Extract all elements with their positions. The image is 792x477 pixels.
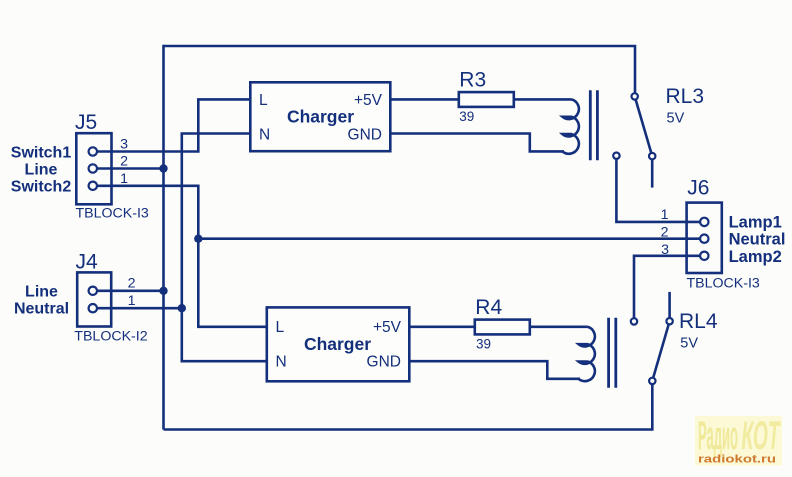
svg-text:L: L (276, 319, 285, 336)
svg-text:J6: J6 (687, 177, 709, 200)
charger U2 body (267, 307, 410, 381)
wire R4 to RL4 coil (530, 325, 588, 328)
svg-text:5V: 5V (680, 336, 698, 352)
wire Line left rail (162, 45, 165, 430)
watermark radiokot logo (695, 414, 782, 466)
svg-text:RL3: RL3 (666, 85, 705, 108)
svg-text:5V: 5V (667, 111, 685, 127)
svg-text:+5V: +5V (373, 319, 402, 336)
svg-text:L: L (259, 92, 268, 109)
resistor R4 (475, 320, 530, 335)
svg-text:Switch2: Switch2 (11, 179, 72, 196)
svg-text:Line: Line (25, 161, 58, 178)
relay RL3 core bar 1 (589, 90, 592, 160)
svg-text:Neutral: Neutral (14, 301, 69, 318)
svg-text:39: 39 (459, 109, 474, 124)
wire Line top rail (164, 46, 636, 93)
relay RL4 pole contact (666, 318, 672, 324)
svg-text:1: 1 (120, 171, 128, 187)
wire Charger1 GND to RL3 coil bottom (390, 134, 564, 152)
svg-text:3: 3 (120, 137, 128, 153)
wire RL4 NO stub (668, 292, 671, 321)
pin J5.1 (89, 182, 97, 190)
wire Line bottom rail (164, 385, 653, 430)
relay RL3 throw contact (649, 153, 655, 159)
pin J4.2 (89, 287, 97, 295)
svg-text:+5V: +5V (354, 92, 383, 109)
svg-text:2: 2 (128, 276, 136, 292)
connector J4 body (77, 272, 111, 326)
junction node to J6 pin2 (194, 235, 202, 243)
wire J5 pin3 to Charger1 L (94, 99, 250, 151)
svg-text:Neutral: Neutral (729, 231, 786, 249)
pin J4.1 (89, 304, 97, 312)
wire R3 to RL3 coil (514, 98, 572, 101)
svg-text:radiokot.ru: radiokot.ru (698, 454, 776, 466)
junction J4 pin2 / Line rail (159, 287, 167, 295)
relay RL4 left contact (631, 318, 637, 324)
relay RL3 pole contact (632, 93, 638, 99)
relay RL4 switch arm (652, 321, 669, 381)
svg-text:1: 1 (128, 293, 136, 309)
svg-text:N: N (259, 126, 270, 143)
relay RL3 coil (563, 99, 579, 153)
svg-text:R3: R3 (459, 68, 486, 91)
svg-text:2: 2 (120, 154, 128, 170)
relay RL3 core bar 2 (596, 90, 599, 160)
pin J5.2 (89, 164, 97, 172)
relay RL4 throw contact (649, 378, 655, 384)
wire node to J6 pin2 Neutral row (198, 237, 700, 240)
charger U1 body (250, 82, 390, 151)
relay RL3 left contact (613, 153, 619, 159)
wire J6 pin3 to RL4 contact (634, 256, 700, 322)
svg-text:Lamp2: Lamp2 (729, 248, 782, 266)
svg-text:Charger: Charger (304, 334, 371, 354)
wire RL3 NO stub (651, 156, 654, 188)
svg-text:Lamp1: Lamp1 (729, 213, 782, 231)
svg-text:J5: J5 (75, 111, 97, 134)
svg-text:2: 2 (661, 225, 669, 241)
relay RL4 coil (579, 327, 595, 381)
svg-text:Charger: Charger (287, 107, 354, 127)
svg-text:GND: GND (348, 126, 382, 143)
wire J4 pin1 Neutral vertical (94, 134, 250, 309)
pin J6.3 (700, 252, 708, 260)
junction J5 pin2 / Line rail (159, 164, 167, 172)
wire RL3 contact to J6 pin1 (616, 156, 700, 222)
svg-text:TBLOCK-I3: TBLOCK-I3 (76, 205, 149, 221)
svg-text:R4: R4 (475, 296, 502, 319)
wire Charger2 +5V to R4 (409, 325, 475, 328)
svg-text:Switch1: Switch1 (11, 144, 72, 161)
svg-text:RL4: RL4 (679, 310, 718, 333)
svg-text:39: 39 (476, 336, 491, 351)
relay RL4 core bar 1 (607, 318, 610, 388)
pin J6.1 (700, 218, 708, 226)
resistor R3 (459, 92, 514, 107)
wire Charger1 +5V to R3 (390, 98, 459, 101)
svg-text:GND: GND (367, 354, 401, 371)
svg-text:TBLOCK-I2: TBLOCK-I2 (74, 329, 147, 345)
svg-text:КОТ: КОТ (742, 414, 782, 458)
wire J4 pin2 to Line rail (94, 289, 164, 292)
wire Charger2 GND to RL4 coil bottom (409, 361, 580, 379)
svg-text:N: N (276, 354, 287, 371)
wire Neutral to Charger2 N (182, 308, 267, 361)
wire J5 pin1 down to Charger2 L (94, 186, 267, 327)
connector J6 body (687, 203, 722, 273)
wire J5 pin2 to Line rail (94, 167, 164, 170)
connector J5 body (76, 133, 111, 204)
svg-text:Line: Line (25, 283, 58, 300)
svg-text:1: 1 (661, 207, 669, 223)
pin J5.3 (89, 147, 97, 155)
relay RL3 switch arm (635, 96, 653, 156)
svg-text:Радио: Радио (698, 414, 738, 458)
junction J4 pin1 / Neutral (178, 304, 186, 312)
pin J6.2 (700, 235, 708, 243)
svg-text:3: 3 (661, 242, 669, 258)
svg-text:J4: J4 (76, 250, 99, 273)
relay RL4 core bar 2 (614, 318, 617, 388)
svg-text:TBLOCK-I3: TBLOCK-I3 (687, 275, 760, 291)
